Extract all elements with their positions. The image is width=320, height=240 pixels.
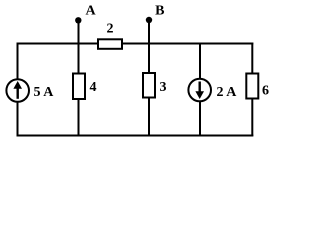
svg-text:2: 2 [107, 22, 114, 37]
svg-text:6: 6 [262, 84, 269, 99]
wire left branch lower (source I1 to bottom bus) [17, 101, 19, 136]
current source I2 2A (arrow down) [188, 79, 211, 102]
svg-text:4: 4 [90, 80, 97, 95]
wire node B stub [148, 20, 150, 44]
wire bottom bus [17, 135, 254, 137]
svg-text:5 A: 5 A [34, 85, 55, 100]
current source I1 5A (arrow up) [6, 79, 29, 102]
wire R3 bottom lead [148, 97, 150, 136]
wire R6 top lead [251, 43, 253, 75]
wire node A stub [78, 20, 80, 44]
node A junction dot [75, 17, 81, 23]
node B junction dot [146, 17, 152, 23]
wire source I2 top lead [199, 43, 201, 81]
resistor R6 (vertical) [246, 74, 258, 99]
wire top bus right segment [122, 43, 253, 45]
svg-text:3: 3 [160, 80, 167, 95]
svg-text:2 A: 2 A [217, 85, 238, 100]
wire R3 top lead [148, 43, 150, 74]
svg-text:A: A [85, 3, 96, 18]
wire left branch upper (source I1 to top bus) [17, 43, 19, 81]
wire R6 bottom lead [251, 99, 253, 136]
resistor R4 (vertical) [73, 74, 85, 100]
wire source I2 bottom lead [199, 101, 201, 136]
wire R4 bottom lead [78, 98, 80, 136]
svg-text:B: B [155, 3, 164, 18]
wire top bus left segment [17, 43, 99, 45]
resistor R2 (horizontal, between A and B) [98, 39, 122, 49]
resistor R3 (vertical) [143, 73, 155, 98]
wire R4 top lead [78, 43, 80, 74]
